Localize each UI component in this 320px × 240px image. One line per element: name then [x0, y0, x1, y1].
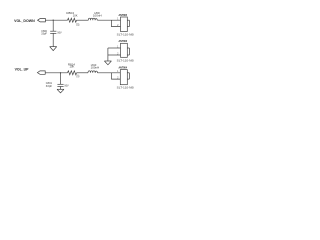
- svg-text:SLT-110-NB: SLT-110-NB: [117, 58, 134, 62]
- wire ANT806 left pins to ground: [108, 48, 121, 61]
- svg-text:50V: 50V: [57, 31, 62, 34]
- capacitor C800 value labels: [41, 30, 62, 36]
- svg-text:ANT806: ANT806: [119, 39, 128, 43]
- switch contact ANT804 labels: [117, 66, 134, 90]
- wire resistor to inductor (bottom): [77, 72, 89, 74]
- svg-text:SLT-110-NB: SLT-110-NB: [117, 85, 134, 89]
- wire right pins tie ANT805: [128, 20, 130, 26]
- ground (C801): [57, 89, 64, 93]
- net flag VOL_UP: [37, 71, 45, 74]
- wire right pins ANT805: [127, 20, 129, 26]
- svg-text:100nH: 100nH: [93, 14, 102, 18]
- svg-text:VOL_DOWN: VOL_DOWN: [14, 19, 35, 23]
- pin numbers ANT806: [117, 46, 119, 55]
- inductor L800 labels: [93, 11, 102, 18]
- pin numbers ANT804: [117, 71, 119, 79]
- resistor R814 labels: [68, 62, 81, 78]
- node junction dot top: [53, 20, 54, 21]
- wire VOL_UP main: [45, 72, 67, 74]
- ground (ANT806): [104, 61, 111, 65]
- switch contact ANT805: [121, 17, 128, 32]
- capacitor C800: [50, 31, 56, 46]
- switch contact ANT806: [121, 43, 128, 57]
- resistor R804: [68, 18, 77, 22]
- wire right pins ANT806: [127, 48, 129, 55]
- svg-text:1W: 1W: [76, 76, 80, 78]
- resistor R804 labels: [66, 11, 80, 27]
- svg-text:10K: 10K: [73, 13, 78, 17]
- svg-text:ANT805: ANT805: [119, 13, 128, 17]
- inductor L800: [88, 18, 97, 20]
- wire branch to pin2 of ANT805: [112, 20, 121, 26]
- wire branch to pin2 of ANT804: [112, 73, 121, 79]
- wire resistor to inductor: [77, 19, 89, 21]
- svg-text:1W: 1W: [76, 25, 80, 27]
- svg-text:100nH: 100nH: [91, 66, 100, 70]
- wire capacitor branch (bottom): [60, 73, 62, 85]
- node junction dot bottom: [60, 72, 61, 73]
- net flag VOL_DOWN: [38, 19, 46, 22]
- capacitor C801 value labels: [46, 82, 69, 88]
- wire inductor to switch pin 1 (bottom): [98, 72, 121, 74]
- inductor L810: [88, 71, 98, 73]
- switch contact ANT804: [120, 70, 127, 85]
- switch contact ANT806 labels: [117, 39, 134, 62]
- svg-text:50V: 50V: [64, 84, 69, 87]
- wire inductor to switch pin 1: [97, 19, 120, 21]
- svg-text:SLT-110-NB: SLT-110-NB: [117, 32, 134, 36]
- switch contact ANT805 labels: [117, 13, 134, 37]
- resistor R814: [68, 71, 77, 75]
- wire right pins tie ANT804: [128, 73, 130, 79]
- wire right pins tie ANT806: [128, 48, 130, 55]
- svg-text:33pF: 33pF: [46, 85, 53, 88]
- svg-text:33pF: 33pF: [41, 33, 47, 36]
- svg-text:VOL_UP: VOL_UP: [15, 68, 29, 72]
- ground (C800): [50, 47, 57, 51]
- node VOL_DOWN label: [14, 19, 35, 23]
- capacitor C801: [57, 84, 63, 89]
- node VOL_UP label: [15, 68, 29, 72]
- wire VOL_DOWN main: [45, 19, 67, 21]
- pin numbers ANT805: [117, 19, 119, 27]
- svg-text:10K: 10K: [70, 65, 75, 69]
- wire right pins ANT804: [127, 73, 129, 79]
- wire capacitor branch: [52, 20, 54, 31]
- svg-text:ANT804: ANT804: [119, 66, 128, 70]
- inductor L810 labels: [91, 63, 100, 69]
